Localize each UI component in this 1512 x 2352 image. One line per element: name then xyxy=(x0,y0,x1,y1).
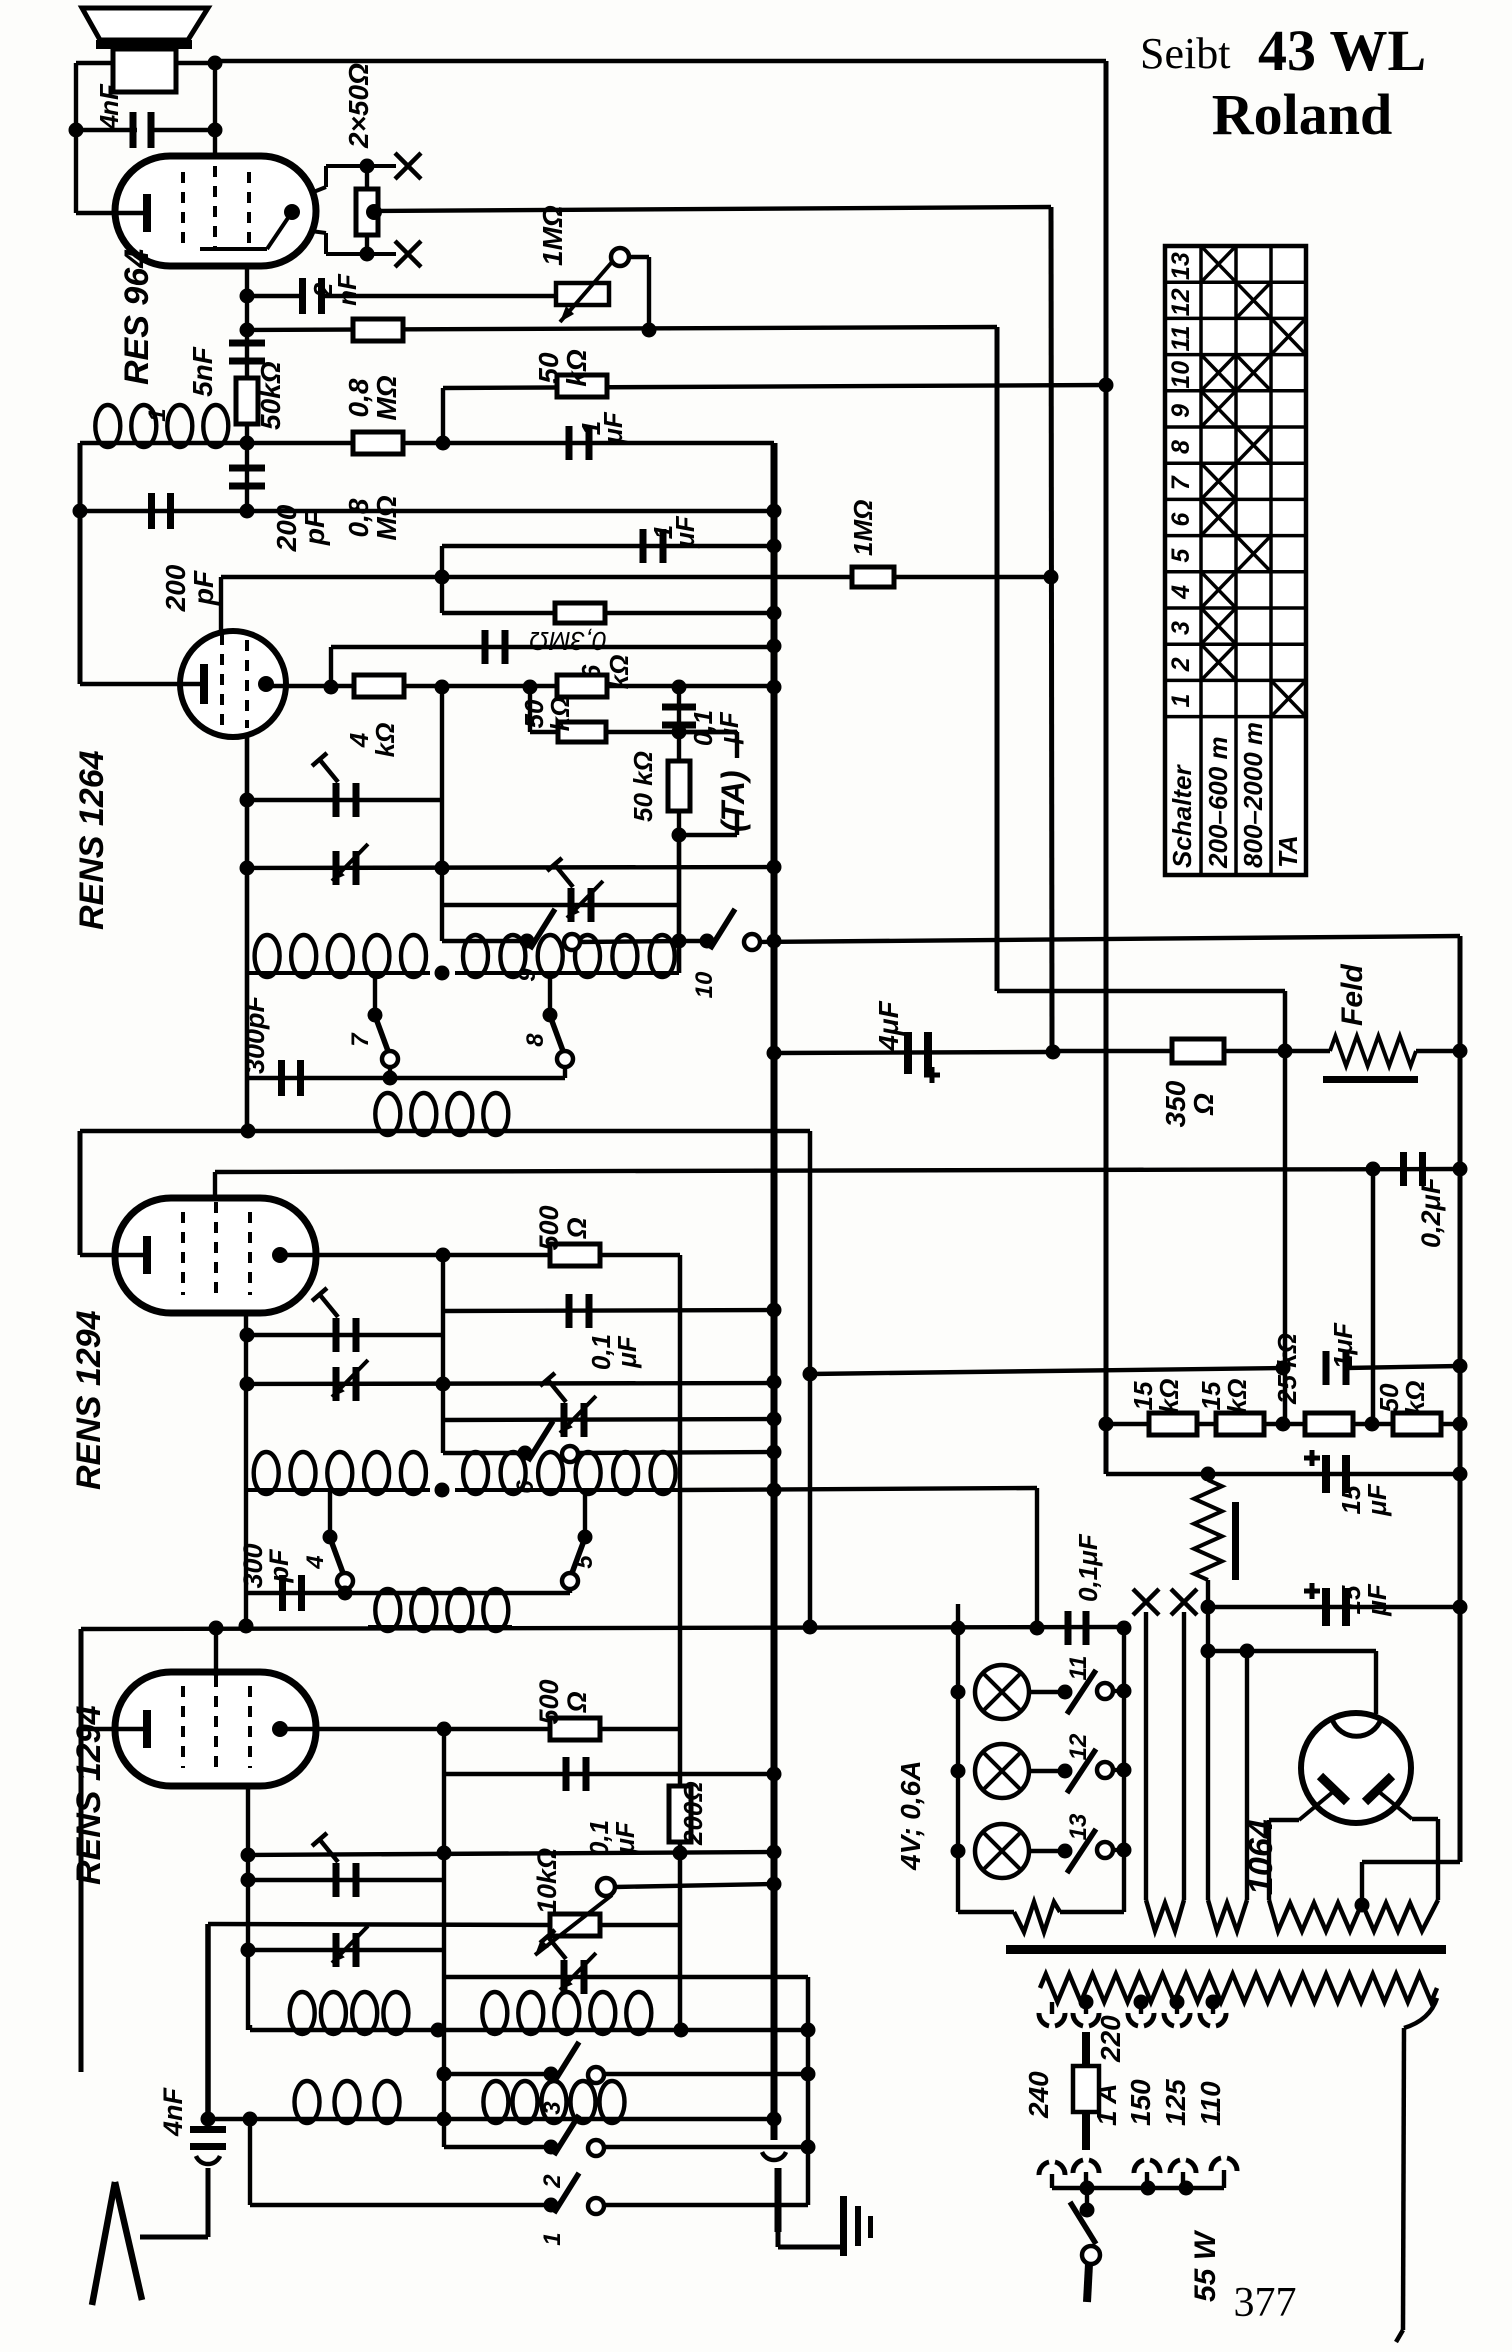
svg-text:300pF: 300pF xyxy=(240,994,270,1074)
svg-text:4: 4 xyxy=(302,1555,329,1569)
capacitor 0.2uF xyxy=(1400,1152,1407,1186)
svg-text:10: 10 xyxy=(1167,361,1195,389)
wire grid line H10 xyxy=(219,577,223,632)
svg-text:55 W: 55 W xyxy=(1189,2229,1222,2302)
svg-text:Feld: Feld xyxy=(1336,964,1369,1026)
wire riser to 50k line xyxy=(441,388,445,443)
capacitor 1uF-1 xyxy=(566,426,573,460)
svg-text:50kΩ: 50kΩ xyxy=(255,361,286,430)
lamp block xyxy=(951,1621,966,1636)
wire H14 xyxy=(530,730,737,734)
speaker xyxy=(82,8,208,40)
capacitor 0,1uF TA xyxy=(677,687,681,973)
svg-text:0,2μF: 0,2μF xyxy=(1416,1176,1446,1248)
resistor 2x50 ohm hum pot xyxy=(365,166,369,190)
resistor 50k-1 xyxy=(236,378,258,424)
capacitor bars of trim2 xyxy=(333,851,340,885)
capacitor 2nF xyxy=(299,278,306,314)
wire H7 grid line xyxy=(80,441,774,445)
coil 4 xyxy=(244,1313,248,1626)
winding notch xyxy=(1014,1902,1060,1932)
trimmer lines RENS1264 xyxy=(245,737,250,1131)
svg-text:240: 240 xyxy=(1023,2071,1054,2119)
wire speaker to top rail xyxy=(176,61,215,65)
wire line A xyxy=(248,2025,252,2030)
capacitor bars of trim1 xyxy=(333,783,340,817)
svg-text:μF: μF xyxy=(670,515,700,549)
wire y991 link xyxy=(997,989,1285,993)
svg-text:500: 500 xyxy=(534,1679,564,1724)
capacitor 1uF-2 xyxy=(640,529,647,563)
wire rail2 xyxy=(1051,207,1052,1053)
wire H1853 xyxy=(241,1848,256,1863)
switch 8 xyxy=(548,973,552,1015)
switch 7 xyxy=(368,1008,383,1023)
switch 4 xyxy=(328,1490,332,1537)
svg-text:13: 13 xyxy=(1167,252,1195,280)
svg-text:1μF: 1μF xyxy=(1328,1322,1358,1369)
mains drop wire xyxy=(1404,1998,1437,2028)
svg-text:nF: nF xyxy=(94,83,124,116)
ground xyxy=(775,2168,782,2232)
svg-text:10kΩ: 10kΩ xyxy=(532,1848,562,1914)
coil L3 xyxy=(368,1129,512,1133)
resistor 500-2 xyxy=(550,1718,600,1740)
svg-text:MΩ: MΩ xyxy=(371,495,402,540)
svg-text:RENS 1294: RENS 1294 xyxy=(70,1705,108,1885)
resistor 0.8M-1 xyxy=(353,319,403,341)
capacitor bars of trim3b xyxy=(561,1403,568,1437)
switch 6 xyxy=(518,1446,533,1461)
svg-text:8: 8 xyxy=(1167,440,1195,454)
svg-text:1: 1 xyxy=(539,2232,566,2245)
wire trimmer1 line xyxy=(240,793,255,808)
svg-text:110: 110 xyxy=(1195,2081,1226,2126)
svg-text:kΩ: kΩ xyxy=(1154,1379,1184,1414)
svg-text:1: 1 xyxy=(144,408,171,421)
lamp La12 xyxy=(975,1744,1029,1798)
svg-text:4μF: 4μF xyxy=(873,1000,904,1051)
wire H8 long line xyxy=(80,509,774,513)
svg-text:μF: μF xyxy=(1362,1583,1392,1617)
wire 15uF-2 line xyxy=(1201,1600,1216,1615)
terminal X heater1 xyxy=(395,153,421,179)
svg-text:200: 200 xyxy=(160,564,191,612)
resistor 200 xyxy=(669,1786,691,1842)
switch 5 xyxy=(583,1490,587,1537)
node 50k bottom xyxy=(240,436,255,451)
svg-text:11: 11 xyxy=(1065,1656,1092,1681)
resistor 0.3M xyxy=(555,603,605,623)
capacitor bars of trimC xyxy=(333,1863,340,1897)
antenna symbol xyxy=(92,2182,115,2305)
resistor 4k xyxy=(354,675,404,697)
capacitor 4nF speaker xyxy=(76,128,137,132)
svg-text:11: 11 xyxy=(1167,326,1195,352)
wire selector common xyxy=(1052,2186,1224,2190)
coil LB2 xyxy=(480,2117,625,2121)
core bar xyxy=(1006,1945,1446,1954)
tube RENS 1294 upper xyxy=(115,1198,316,1313)
coil L2b xyxy=(455,971,679,975)
table Schalter xyxy=(1165,246,1306,875)
resistor 0.8M-2 xyxy=(353,432,403,454)
wire top rail H1 xyxy=(215,59,1106,63)
antenna xyxy=(140,2235,208,2240)
capacitor c-g2 xyxy=(482,630,489,664)
svg-text:μF: μF xyxy=(714,711,744,745)
wire riser x442 xyxy=(440,687,444,941)
svg-text:5: 5 xyxy=(571,1555,598,1569)
svg-text:1MΩ: 1MΩ xyxy=(537,205,568,266)
wire anode line upper1294 xyxy=(280,1253,680,1257)
resistor 350 xyxy=(1172,1039,1224,1063)
svg-text:8: 8 xyxy=(522,1033,549,1047)
switch 5 xyxy=(578,1530,593,1545)
terminal X hx2 xyxy=(1171,1589,1197,1615)
svg-text:500: 500 xyxy=(534,1205,564,1250)
switch 2 line xyxy=(444,2145,551,2149)
winding W1 bottom xyxy=(1146,1900,1184,1931)
anode RENS1264 xyxy=(258,676,274,692)
potentiometer 1M ohm xyxy=(556,283,609,305)
winding W3 bottom xyxy=(1269,1900,1438,1931)
resistor 50k-4 xyxy=(1393,1413,1441,1435)
capacitor bars of trimE xyxy=(561,1960,568,1994)
svg-text:7: 7 xyxy=(1167,475,1195,490)
svg-text:RES 964: RES 964 xyxy=(118,249,156,385)
resistor row 15k 15k 25k 50k xyxy=(1099,1417,1114,1432)
winding primary xyxy=(1040,1974,1437,2002)
svg-text:μF: μF xyxy=(612,1335,642,1369)
node H8 left xyxy=(73,504,88,519)
svg-text:(TA): (TA) xyxy=(715,770,751,832)
capacitor 300pF-1 xyxy=(278,1060,285,1096)
resistor 2x50 xyxy=(356,189,378,235)
wire 0,1uF line upper xyxy=(441,1255,445,1453)
wire left speaker branch xyxy=(74,63,78,213)
svg-text:μF: μF xyxy=(598,411,628,445)
wire rail3 xyxy=(995,327,1000,991)
svg-text:50: 50 xyxy=(533,352,564,384)
svg-text:220: 220 xyxy=(1095,2015,1126,2063)
svg-text:3: 3 xyxy=(539,2101,566,2115)
capacitor 0.1uF-2 xyxy=(563,1757,570,1791)
wire plate-supply line H3 xyxy=(374,207,1051,211)
coil L4b xyxy=(455,1488,680,1492)
wire anode line lower xyxy=(280,1727,680,1731)
wire y1474 line xyxy=(1106,1472,1460,1476)
capacitor 200pF-1 xyxy=(229,465,265,472)
svg-text:5: 5 xyxy=(1167,548,1195,563)
resistor 1M-2 xyxy=(852,567,894,587)
svg-text:150: 150 xyxy=(1125,2079,1156,2126)
svg-text:125: 125 xyxy=(1160,2079,1191,2126)
svg-text:RENS 1294: RENS 1294 xyxy=(70,1310,108,1490)
resistor 500-1 xyxy=(550,1244,600,1266)
terminal X hx1 xyxy=(1133,1589,1159,1615)
wire x680 long vertical xyxy=(678,1255,683,2030)
svg-text:377: 377 xyxy=(1234,2280,1297,2326)
svg-text:25 kΩ: 25 kΩ xyxy=(1272,1333,1302,1405)
capacitor 1uF-3 xyxy=(1323,1351,1330,1385)
capacitor bars of trim3 xyxy=(568,888,575,922)
svg-text:3: 3 xyxy=(1167,621,1195,635)
primary taps xyxy=(1079,1995,1094,2010)
wire bus vertical xyxy=(771,443,778,2135)
wire x808 xyxy=(806,1977,811,2205)
node rail1 H6 xyxy=(1099,378,1114,393)
svg-text:kΩ: kΩ xyxy=(1222,1379,1252,1414)
svg-text:9: 9 xyxy=(514,968,541,982)
wire anode line H13 xyxy=(266,684,774,688)
mains switch xyxy=(1085,2188,1089,2208)
switch 3 line xyxy=(444,2072,551,2076)
svg-text:1 A: 1 A xyxy=(1091,2083,1122,2126)
capacitor 4nF-ant xyxy=(190,2126,226,2133)
svg-text:0,1μF: 0,1μF xyxy=(1073,1533,1103,1602)
svg-text:μF: μF xyxy=(610,1821,640,1855)
resistor 15k-1 xyxy=(1149,1413,1197,1435)
svg-text:7: 7 xyxy=(347,1032,374,1047)
svg-text:0,8: 0,8 xyxy=(343,498,374,537)
wire H6 to rail1 xyxy=(443,385,1106,388)
wire sw10 line to Feld xyxy=(1458,936,1463,1862)
wire right rail 1 top corner xyxy=(1104,61,1109,1474)
wire left branch xyxy=(78,443,83,684)
wire H12 cap line xyxy=(331,645,774,649)
voltage selector cups xyxy=(1039,2162,1049,2175)
trimmers lower xyxy=(246,1786,250,2025)
svg-text:2×50Ω: 2×50Ω xyxy=(343,63,374,149)
svg-text:350: 350 xyxy=(1160,1080,1191,1127)
connector bus end xyxy=(762,2152,786,2160)
svg-text:nF: nF xyxy=(332,273,362,306)
wire H11 0,3M line xyxy=(440,577,444,613)
capacitor 4nF xyxy=(130,112,137,148)
trimmers upper 1294 xyxy=(240,1328,255,1343)
svg-text:0,8: 0,8 xyxy=(343,378,374,417)
tube RES 964 xyxy=(115,156,316,266)
svg-text:Ω: Ω xyxy=(562,1217,592,1239)
coil L1 xyxy=(88,441,232,445)
wire 300pF-2 line xyxy=(246,1591,570,1595)
svg-text:10: 10 xyxy=(691,971,718,998)
winding Feld xyxy=(1330,1036,1416,1066)
svg-text:Roland: Roland xyxy=(1212,82,1393,147)
cathode RENS1264 xyxy=(200,664,208,704)
wire tube bottom to 2nF node xyxy=(245,266,249,511)
resistor divider xyxy=(1194,1480,1222,1580)
switch 4 xyxy=(323,1530,338,1545)
svg-text:kΩ: kΩ xyxy=(545,697,575,732)
wire switch 9/10 line xyxy=(442,939,527,943)
svg-text:pF: pF xyxy=(264,1548,294,1583)
svg-text:Seibt: Seibt xyxy=(1140,29,1230,78)
filament tap xyxy=(1355,1898,1370,1913)
svg-text:pF: pF xyxy=(188,570,219,606)
wire trimmer2 line xyxy=(240,861,255,876)
capacitor 0.1uF-TA xyxy=(662,704,696,711)
tube RENS 1294 lower xyxy=(115,1672,316,1786)
node H7/riser xyxy=(436,436,451,451)
wire sw1 feed xyxy=(248,2119,252,2205)
coil L2a xyxy=(247,971,430,975)
node speaker top xyxy=(208,56,223,71)
antenna circuit xyxy=(205,1924,211,2119)
resistor 50k-3 xyxy=(558,722,606,742)
svg-text:0,3MΩ: 0,3MΩ xyxy=(529,626,607,656)
svg-text:200Ω: 200Ω xyxy=(678,1781,708,1846)
heater leads RES964 xyxy=(311,187,326,193)
coil L4a xyxy=(246,1488,430,1492)
svg-text:13: 13 xyxy=(1065,1813,1092,1840)
tube RENS 1264 xyxy=(180,631,286,737)
coil LA1 xyxy=(285,2028,410,2032)
svg-text:1064: 1064 xyxy=(1242,1819,1280,1895)
svg-text:2: 2 xyxy=(1167,657,1195,672)
capacitor bars of trimB xyxy=(333,1367,340,1401)
svg-text:6: 6 xyxy=(1167,511,1195,526)
tube 1064 rectifier xyxy=(1301,1713,1411,1823)
coil LB1 xyxy=(285,2117,405,2121)
capacitor bars of trimD xyxy=(333,1933,340,1967)
svg-text:1: 1 xyxy=(1167,694,1195,708)
wire y1651 filament feed xyxy=(1201,1644,1216,1659)
switch 3 xyxy=(544,2067,559,2082)
resistor 50k-TA xyxy=(668,761,690,811)
capacitor 5nF xyxy=(229,340,265,347)
switch 1 line xyxy=(250,2203,551,2207)
anode RES964 xyxy=(284,204,300,220)
switch 7 xyxy=(373,973,377,1015)
HV winding connections xyxy=(1269,1818,1299,1822)
switch 9 xyxy=(520,934,535,949)
capacitor 2nF xyxy=(240,289,255,304)
capacitor 0.1uF-1 xyxy=(566,1294,573,1328)
anode plates 1064 xyxy=(1320,1776,1347,1802)
svg-text:1MΩ: 1MΩ xyxy=(848,500,878,556)
svg-text:Ω: Ω xyxy=(1188,1093,1219,1116)
switch 2 xyxy=(544,2140,559,2155)
svg-text:9: 9 xyxy=(1167,404,1195,418)
coil LA2 xyxy=(475,2028,655,2032)
svg-text:μF: μF xyxy=(1362,1483,1392,1517)
wire x1373 xyxy=(1371,1169,1376,1424)
wire line B xyxy=(201,2112,216,2127)
capacitor 4uF xyxy=(904,1032,912,1074)
svg-text:43 WL: 43 WL xyxy=(1258,18,1426,83)
potentiometer 10k xyxy=(208,1924,551,1925)
resistor 15k-2 xyxy=(1216,1413,1264,1435)
trimmer E line xyxy=(444,1975,808,1979)
grid dashes RES964 xyxy=(181,172,185,250)
capacitor 300pF-2 xyxy=(279,1575,286,1611)
lamp La11 xyxy=(975,1665,1029,1719)
svg-text:4: 4 xyxy=(1167,585,1195,600)
wire 0,1uF line lower xyxy=(442,1729,446,2147)
svg-text:2: 2 xyxy=(539,2174,566,2189)
svg-text:800–2000 m: 800–2000 m xyxy=(1238,722,1268,868)
wire riser 50k2 xyxy=(528,687,532,732)
TA terminal xyxy=(679,730,737,734)
svg-text:200–600 m: 200–600 m xyxy=(1203,736,1233,869)
svg-text:Schalter: Schalter xyxy=(1167,764,1197,868)
svg-text:4nF: 4nF xyxy=(158,2086,188,2137)
switch 8 xyxy=(543,1008,558,1023)
lamp La13 xyxy=(975,1824,1029,1878)
wire x678 vertical xyxy=(677,835,681,973)
coil L4c xyxy=(368,1625,512,1629)
svg-text:kΩ: kΩ xyxy=(1400,1381,1430,1416)
terminal X heater2 xyxy=(395,241,421,267)
wire trimmer3 line xyxy=(442,903,678,907)
capacitor 200pF-2 xyxy=(148,493,155,529)
wire H9 1uF line xyxy=(442,544,774,548)
svg-text:Ω: Ω xyxy=(562,1691,592,1713)
winding W2 bottom xyxy=(1208,1900,1247,1931)
fuse 1A xyxy=(1082,2032,1090,2066)
wire grid-cap down into RES964 xyxy=(213,63,217,158)
wire 300pF line xyxy=(247,1076,565,1080)
capacitor 15uF-2 xyxy=(1322,1588,1330,1626)
lamp loop bottom xyxy=(958,1910,1014,1915)
svg-text:pF: pF xyxy=(299,510,330,546)
svg-text:5nF: 5nF xyxy=(187,346,218,397)
capacitor bars of trimA xyxy=(333,1318,340,1352)
wire H26 heater/lamp line xyxy=(81,1627,1124,1629)
resistor 10k xyxy=(550,1914,600,1936)
resistor 50k-2 xyxy=(557,375,607,397)
svg-text:kΩ: kΩ xyxy=(370,723,400,758)
switch 6 line xyxy=(443,1451,525,1455)
resistor 6k xyxy=(557,675,607,697)
wire x810 vertical xyxy=(808,1131,813,1627)
wire 0,2uF line H-172 xyxy=(215,1169,1460,1172)
svg-text:50 kΩ: 50 kΩ xyxy=(628,751,658,822)
svg-text:kΩ: kΩ xyxy=(561,349,592,387)
svg-text:12: 12 xyxy=(1167,288,1195,316)
svg-text:4V; 0,6A: 4V; 0,6A xyxy=(895,1761,926,1871)
svg-text:TA: TA xyxy=(1273,835,1303,868)
cathode RES964 xyxy=(143,194,151,232)
svg-text:MΩ: MΩ xyxy=(371,375,402,420)
wire y1374 line xyxy=(810,1368,1283,1374)
svg-text:12: 12 xyxy=(1065,1733,1092,1760)
wire AVC line H5 xyxy=(240,323,255,338)
wire 4uF line xyxy=(774,1052,1053,1053)
capacitor 15uF-1 xyxy=(1322,1455,1330,1493)
switch 1 xyxy=(544,2198,559,2213)
resistor 25k xyxy=(1305,1413,1353,1435)
svg-text:RENS 1264: RENS 1264 xyxy=(73,750,111,930)
capacitor 0.1uF-lamps xyxy=(1065,1611,1072,1645)
coil A xyxy=(246,2025,250,2030)
switch 10 xyxy=(700,934,715,949)
wire H19 interstage xyxy=(80,1129,810,1133)
